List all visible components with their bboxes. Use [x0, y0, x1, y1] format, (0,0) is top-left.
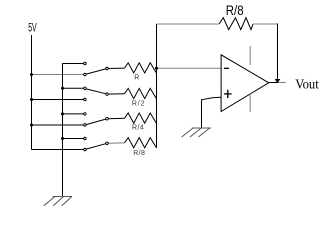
- svg-text:R/2: R/2: [132, 100, 145, 107]
- svg-text:R: R: [134, 75, 139, 82]
- svg-text:R/8: R/8: [226, 2, 244, 18]
- svg-text:Vout: Vout: [295, 78, 319, 93]
- svg-text:5V: 5V: [28, 21, 37, 35]
- svg-text:R/4: R/4: [132, 124, 144, 131]
- svg-text:R/8: R/8: [133, 150, 145, 157]
